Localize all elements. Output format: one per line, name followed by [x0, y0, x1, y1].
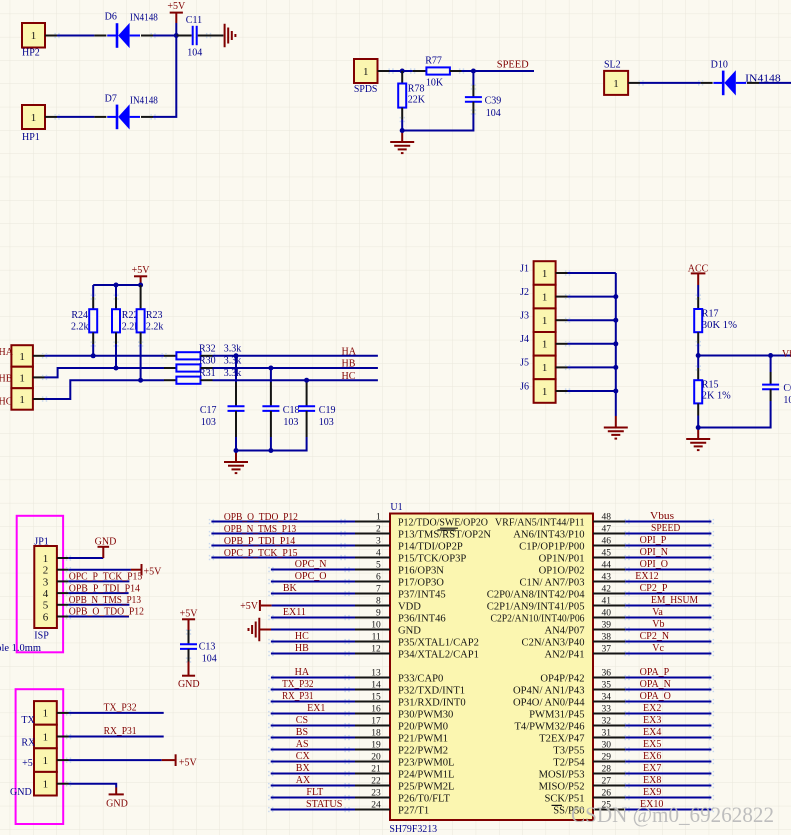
- pin 27: [539, 776, 626, 792]
- net label OPA_P: [640, 667, 670, 678]
- resistor R78: [398, 71, 426, 122]
- pin: [57, 614, 71, 619]
- wire: [33, 368, 164, 380]
- svg-text:36: 36: [602, 668, 612, 678]
- svg-text:24: 24: [371, 800, 381, 810]
- svg-text:R78: R78: [408, 83, 425, 94]
- ground: [224, 451, 248, 474]
- svg-text:Vbus: Vbus: [782, 349, 791, 360]
- wire: [624, 807, 714, 812]
- wire: [33, 380, 164, 402]
- wire: [402, 70, 412, 72]
- svg-text:R32: R32: [199, 344, 216, 355]
- connector HP1: [22, 105, 45, 143]
- net label OPI_P: [640, 535, 667, 546]
- pin 4: [355, 548, 466, 564]
- net label SPEED: [497, 59, 529, 70]
- wire: [68, 616, 129, 618]
- svg-text:hole 1.0mm: hole 1.0mm: [0, 643, 41, 654]
- svg-text:EX8: EX8: [643, 775, 661, 786]
- pin: [57, 602, 71, 607]
- wire: [624, 615, 714, 620]
- wire: [153, 36, 176, 117]
- wire: [698, 355, 791, 357]
- net label EX5: [643, 739, 661, 750]
- wire: [556, 341, 616, 346]
- svg-text:P31/RXD/INT0: P31/RXD/INT0: [398, 698, 466, 709]
- power +5V: [180, 609, 199, 631]
- svg-text:HA: HA: [295, 667, 310, 678]
- pin 43: [519, 572, 625, 588]
- pin 14: [355, 680, 465, 696]
- pin 40: [491, 608, 626, 624]
- junction: [138, 378, 143, 383]
- wire: [268, 735, 355, 740]
- svg-text:104: 104: [187, 48, 202, 59]
- pin 2: [355, 524, 491, 540]
- svg-text:21: 21: [371, 764, 381, 774]
- wire: [624, 723, 714, 728]
- svg-text:GND: GND: [10, 787, 32, 798]
- svg-text:11: 11: [372, 632, 381, 642]
- net label Vb: [652, 619, 664, 630]
- svg-text:OPB_P_TDI_P14: OPB_P_TDI_P14: [69, 583, 140, 594]
- net label OPA_O: [640, 691, 671, 702]
- svg-text:R77: R77: [425, 55, 442, 66]
- svg-text:23: 23: [371, 788, 381, 798]
- pin 32: [514, 716, 625, 732]
- svg-text:STATUS: STATUS: [306, 799, 342, 810]
- pin 29: [553, 752, 625, 768]
- svg-text:+5V: +5V: [167, 1, 186, 12]
- power GND: [106, 788, 128, 810]
- pin 13: [355, 668, 443, 684]
- svg-text:RX_P31: RX_P31: [282, 691, 313, 702]
- svg-text:3: 3: [43, 576, 49, 588]
- connector HA/HB/HC: [11, 345, 33, 410]
- wire: [236, 437, 307, 451]
- net label OPB_N_TMS_P13: [69, 595, 141, 606]
- svg-text:4: 4: [43, 588, 49, 600]
- net label EX4: [643, 727, 661, 738]
- svg-text:ISP: ISP: [34, 631, 49, 642]
- wire: [624, 543, 714, 548]
- svg-text:OPB_O_TDO_P12: OPB_O_TDO_P12: [224, 512, 298, 523]
- svg-text:+5: +5: [22, 758, 33, 769]
- wire: [624, 699, 714, 704]
- ground: [604, 416, 628, 439]
- net label HB: [0, 374, 13, 385]
- net label TX_P32: [104, 703, 137, 714]
- wire: [272, 605, 355, 607]
- wire: [268, 711, 355, 716]
- wire: [624, 735, 714, 740]
- svg-text:104: 104: [783, 395, 791, 406]
- overline RST: [438, 529, 456, 531]
- ground: [225, 24, 236, 48]
- wire: [402, 114, 473, 131]
- svg-text:P35/XTAL1/CAP2: P35/XTAL1/CAP2: [398, 638, 479, 649]
- wire: [268, 699, 355, 704]
- svg-text:R15: R15: [702, 380, 719, 391]
- svg-text:22K: 22K: [408, 95, 426, 106]
- capacitor C18: [262, 368, 299, 437]
- wire: [268, 591, 355, 596]
- svg-text:CP2_N: CP2_N: [640, 631, 669, 642]
- svg-text:1: 1: [43, 731, 49, 743]
- pin 24: [355, 800, 429, 816]
- pin 11: [355, 632, 479, 648]
- svg-text:29: 29: [602, 752, 612, 762]
- wire: [268, 747, 355, 752]
- resistor R77: [410, 55, 464, 88]
- wire: [697, 344, 699, 356]
- svg-text:T2/P54: T2/P54: [553, 758, 585, 769]
- capacitor C17: [200, 356, 245, 437]
- net label EX8: [643, 775, 661, 786]
- svg-text:T3/P55: T3/P55: [553, 746, 584, 757]
- net label OPB_O_TDO_P12: [224, 512, 298, 523]
- svg-text:J2: J2: [520, 287, 529, 298]
- net label EX9: [643, 787, 661, 798]
- junction: [114, 283, 119, 288]
- junction: [768, 353, 773, 358]
- wire: [624, 771, 714, 776]
- pin 9: [355, 608, 446, 624]
- net label AS: [296, 739, 309, 750]
- svg-text:OPB_O_TDO_P12: OPB_O_TDO_P12: [69, 607, 144, 618]
- svg-text:BS: BS: [296, 727, 308, 738]
- svg-text:34: 34: [602, 692, 612, 702]
- pin 10: [355, 620, 421, 636]
- pin 3: [355, 536, 463, 552]
- svg-text:J1: J1: [520, 263, 529, 274]
- junction: [613, 389, 618, 394]
- pin 7: [355, 584, 446, 600]
- svg-text:HA: HA: [342, 347, 357, 358]
- svg-text:1: 1: [542, 268, 548, 280]
- svg-text:OPB_N_TMS_P13: OPB_N_TMS_P13: [224, 524, 296, 535]
- svg-text:19: 19: [371, 740, 381, 750]
- svg-text:+5V: +5V: [144, 567, 163, 578]
- svg-text:2.2k: 2.2k: [71, 321, 89, 332]
- svg-text:D7: D7: [105, 93, 117, 104]
- connector SL2: [604, 59, 628, 95]
- svg-text:EX5: EX5: [643, 739, 661, 750]
- svg-text:1: 1: [542, 362, 548, 374]
- net label HA: [0, 347, 14, 358]
- svg-text:SL2: SL2: [604, 59, 621, 70]
- pin: [57, 591, 71, 596]
- svg-text:OP4N/ AN1/P43: OP4N/ AN1/P43: [513, 686, 585, 697]
- svg-text:OPC_P_TCK_P15: OPC_P_TCK_P15: [69, 572, 143, 583]
- pin 48: [495, 512, 625, 528]
- junction: [613, 294, 618, 299]
- svg-text:C13: C13: [199, 641, 216, 652]
- wire: [45, 114, 94, 119]
- svg-text:HP1: HP1: [22, 132, 40, 143]
- net label CP2_N: [640, 631, 669, 642]
- svg-text:EX4: EX4: [643, 727, 661, 738]
- svg-text:47: 47: [602, 524, 612, 534]
- svg-text:MISO/P52: MISO/P52: [539, 782, 585, 793]
- svg-text:R24: R24: [71, 310, 88, 321]
- IC U1 outline: [389, 502, 593, 835]
- wire: [209, 531, 355, 536]
- svg-text:12: 12: [371, 644, 381, 654]
- svg-text:R23: R23: [146, 310, 163, 321]
- pin 45: [539, 548, 626, 564]
- svg-text:HB: HB: [295, 643, 309, 654]
- net label TX_P32: [282, 679, 313, 690]
- svg-text:C39: C39: [485, 95, 502, 106]
- power +5V: [240, 600, 271, 612]
- frame: [16, 689, 64, 824]
- wire: [213, 379, 378, 381]
- svg-text:C11: C11: [186, 15, 202, 26]
- svg-text:P37/INT45: P37/INT45: [398, 590, 446, 601]
- net label EX6: [643, 751, 661, 762]
- wire: [615, 273, 617, 416]
- svg-text:3.3k: 3.3k: [224, 368, 242, 379]
- power GND: [178, 662, 200, 691]
- overline SS: [552, 804, 563, 806]
- wire: [268, 783, 355, 788]
- svg-text:1: 1: [542, 386, 548, 398]
- svg-text:OPC_O: OPC_O: [295, 571, 327, 582]
- pin 22: [355, 776, 455, 792]
- svg-text:33: 33: [602, 704, 612, 714]
- svg-text:HB: HB: [0, 374, 13, 385]
- wire: [57, 781, 116, 787]
- svg-text:U1: U1: [390, 502, 402, 513]
- pin 34: [513, 692, 625, 708]
- ground: [686, 428, 710, 451]
- wire: [624, 687, 714, 692]
- wire: [268, 615, 355, 620]
- svg-text:43: 43: [602, 572, 612, 582]
- pin 42: [487, 584, 625, 600]
- svg-text:GND: GND: [95, 537, 117, 548]
- svg-text:P15/TCK/OP3P: P15/TCK/OP3P: [398, 554, 466, 565]
- net label EX12: [635, 571, 658, 582]
- svg-text:BX: BX: [296, 763, 311, 774]
- svg-text:28: 28: [602, 764, 612, 774]
- svg-text:Vb: Vb: [652, 619, 664, 630]
- svg-text:HP2: HP2: [22, 48, 40, 59]
- wire: [209, 543, 355, 548]
- wire: [628, 80, 701, 85]
- pin 47: [513, 524, 625, 540]
- svg-text:D6: D6: [105, 12, 117, 23]
- wire: [556, 365, 616, 370]
- net label HC: [0, 397, 13, 408]
- svg-text:AN2/P41: AN2/P41: [544, 650, 584, 661]
- wire: [624, 627, 714, 632]
- svg-text:R17: R17: [702, 309, 719, 320]
- junction: [234, 353, 239, 358]
- net label OPA_N: [640, 679, 671, 690]
- svg-text:18: 18: [371, 728, 381, 738]
- wire: [45, 33, 94, 38]
- svg-text:AN6/INT43/P10: AN6/INT43/P10: [513, 530, 584, 541]
- svg-text:RX: RX: [21, 738, 36, 749]
- wire: [268, 639, 355, 644]
- svg-text:EX7: EX7: [643, 763, 661, 774]
- wire: [268, 675, 355, 680]
- diode D6: [94, 12, 157, 48]
- svg-text:OP1O/P02: OP1O/P02: [539, 566, 585, 577]
- net label OPB_P_TDI_P14: [224, 536, 295, 547]
- net label EX10: [640, 799, 663, 810]
- svg-text:1: 1: [363, 66, 369, 78]
- power +5V: [131, 564, 162, 578]
- svg-text:Vbus: Vbus: [650, 511, 674, 522]
- svg-text:EM_HSUM: EM_HSUM: [651, 595, 698, 606]
- svg-text:C1P/OP1P/P00: C1P/OP1P/P00: [519, 542, 584, 553]
- pin 15: [355, 692, 466, 708]
- wire: [624, 759, 714, 764]
- svg-text:GND: GND: [398, 626, 421, 637]
- svg-text:Vc: Vc: [652, 643, 664, 654]
- pin 28: [539, 764, 626, 780]
- svg-text:44: 44: [602, 560, 612, 570]
- pin 33: [529, 704, 625, 720]
- svg-text:P16/OP3N: P16/OP3N: [398, 566, 444, 577]
- resistor R17: [694, 294, 737, 346]
- svg-text:1: 1: [542, 339, 548, 351]
- svg-text:26: 26: [602, 788, 612, 798]
- pin 18: [355, 728, 448, 744]
- svg-text:P20/PWM0: P20/PWM0: [398, 722, 448, 733]
- svg-text:17: 17: [371, 716, 381, 726]
- wire: [115, 344, 117, 368]
- svg-text:2: 2: [43, 565, 49, 577]
- wire: [271, 629, 355, 631]
- power +5V: [132, 265, 151, 285]
- svg-text:103: 103: [201, 417, 216, 428]
- svg-text:16: 16: [371, 704, 381, 714]
- wire: [624, 591, 714, 596]
- net label OPI_N: [640, 547, 668, 558]
- junction: [268, 366, 273, 371]
- svg-text:1: 1: [376, 512, 381, 522]
- svg-text:1: 1: [43, 553, 49, 565]
- net label BK: [283, 583, 298, 594]
- wire: [268, 759, 355, 764]
- wire: [624, 603, 714, 608]
- svg-text:GND: GND: [178, 679, 200, 690]
- wire: [473, 70, 534, 72]
- svg-text:P25/PWM2L: P25/PWM2L: [398, 782, 455, 793]
- svg-text:8: 8: [376, 596, 381, 606]
- svg-text:C18: C18: [283, 405, 300, 416]
- wire: [698, 401, 770, 428]
- svg-text:48: 48: [602, 512, 612, 522]
- resistor R22: [112, 294, 139, 346]
- svg-text:35: 35: [602, 680, 612, 690]
- svg-text:J6: J6: [520, 381, 529, 392]
- pin 23: [355, 788, 451, 804]
- svg-text:14: 14: [371, 680, 381, 690]
- wire: [624, 639, 714, 644]
- connector TX/RX: [10, 701, 57, 798]
- wire: [556, 388, 616, 393]
- net label HA: [342, 347, 357, 358]
- svg-text:C19: C19: [319, 405, 336, 416]
- svg-text:GND: GND: [106, 798, 128, 809]
- wire: [759, 82, 791, 84]
- wire: [68, 592, 128, 594]
- pin 37: [544, 644, 625, 660]
- svg-text:OPI_O: OPI_O: [640, 559, 668, 570]
- svg-text:HA: HA: [0, 347, 14, 358]
- svg-text:MOSI/P53: MOSI/P53: [539, 770, 585, 781]
- svg-text:AX: AX: [296, 775, 311, 786]
- svg-text:CP2_P: CP2_P: [640, 583, 668, 594]
- svg-text:T4/PWM32/P46: T4/PWM32/P46: [514, 722, 584, 733]
- svg-text:C2P0/AN8/INT42/P04: C2P0/AN8/INT42/P04: [487, 590, 585, 601]
- pin: [57, 579, 71, 584]
- svg-text:VRF/AN5/INT44/P11: VRF/AN5/INT44/P11: [495, 518, 585, 529]
- svg-text:4: 4: [376, 548, 381, 558]
- svg-text:P13/TMS/RST/OP2N: P13/TMS/RST/OP2N: [398, 530, 491, 541]
- connector J1-J6: [520, 261, 556, 403]
- svg-text:1: 1: [43, 708, 49, 720]
- svg-text:TX_P32: TX_P32: [104, 703, 137, 714]
- svg-text:15: 15: [371, 692, 381, 702]
- svg-text:1: 1: [31, 112, 37, 124]
- svg-text:HC: HC: [295, 631, 309, 642]
- svg-text:C17: C17: [200, 405, 217, 416]
- net label HA: [295, 667, 310, 678]
- svg-text:Va: Va: [652, 607, 663, 618]
- svg-text:P36/INT46: P36/INT46: [398, 614, 446, 625]
- svg-text:P23/PWM0L: P23/PWM0L: [398, 758, 455, 769]
- wire: [556, 270, 616, 275]
- pin 16: [355, 704, 453, 720]
- svg-text:3.3k: 3.3k: [224, 344, 242, 355]
- wire: [68, 557, 103, 559]
- net label OPC_N: [295, 559, 327, 570]
- svg-text:P27/T1: P27/T1: [398, 806, 429, 817]
- svg-text:10: 10: [371, 620, 381, 630]
- diode D7: [94, 93, 157, 129]
- pin 25: [553, 800, 625, 816]
- pin 12: [355, 644, 479, 660]
- resistor R31: [164, 368, 241, 384]
- svg-text:PWM31/P45: PWM31/P45: [529, 710, 584, 721]
- net label OPC_O: [295, 571, 327, 582]
- svg-text:103: 103: [319, 417, 334, 428]
- pin 46: [519, 536, 625, 552]
- svg-text:OPA_P: OPA_P: [640, 667, 670, 678]
- pin 20: [355, 752, 455, 768]
- svg-text:46: 46: [602, 536, 612, 546]
- wire: [378, 68, 403, 73]
- net label BX: [296, 763, 311, 774]
- svg-text:1: 1: [19, 351, 25, 363]
- resistor R24: [71, 294, 97, 346]
- svg-text:30: 30: [602, 740, 612, 750]
- junction: [174, 33, 179, 38]
- svg-text:CX: CX: [296, 751, 311, 762]
- svg-text:39: 39: [602, 620, 612, 630]
- svg-text:FLT: FLT: [306, 787, 323, 798]
- svg-text:OPB_N_TMS_P13: OPB_N_TMS_P13: [69, 595, 141, 606]
- wire: [624, 675, 714, 680]
- junction: [696, 353, 701, 358]
